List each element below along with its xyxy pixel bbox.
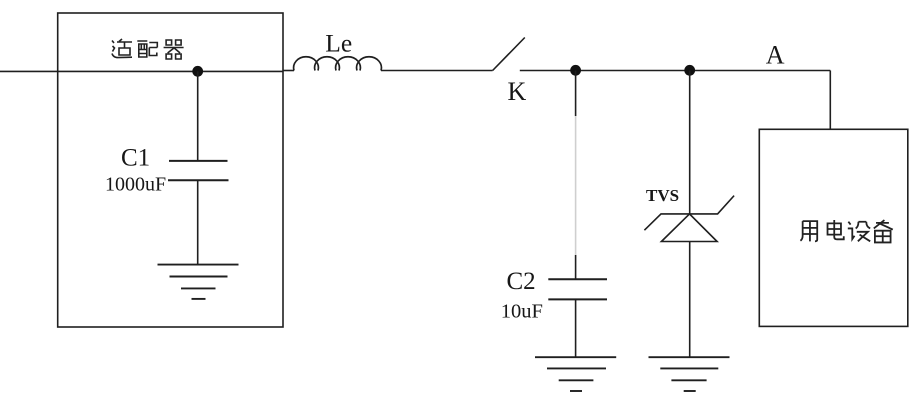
wire: inductor lead bbox=[283, 70, 294, 72]
ground (C2) bbox=[535, 357, 616, 391]
ground (TVS) bbox=[649, 357, 730, 391]
inductor Le bbox=[294, 57, 382, 71]
wire: switch to corner above load box bbox=[520, 70, 831, 72]
svg-text:C2: C2 bbox=[507, 268, 536, 295]
wire: into C2 top plate bbox=[575, 255, 577, 279]
TVS diode D1: cathode bar with bent ends bbox=[644, 196, 734, 231]
TVS diode D1: triangle bbox=[661, 214, 717, 242]
adapter box bbox=[58, 13, 283, 327]
switch K blade bbox=[493, 38, 525, 71]
wire: node down to C1 top plate bbox=[197, 71, 199, 161]
svg-text:Le: Le bbox=[325, 29, 352, 58]
wire: node B2 down to TVS bbox=[689, 71, 691, 214]
wire: input lead from left edge through adapter to box right edge bbox=[0, 70, 283, 72]
load box (用电设备) bbox=[759, 129, 908, 326]
label 用电设备 (load) hand-drawn glyphs bbox=[800, 220, 892, 242]
node B2: junction dot at TVS branch bbox=[684, 65, 695, 76]
label 适配器 (adapter) hand-drawn glyphs bbox=[112, 39, 184, 59]
capacitor C2 bbox=[548, 279, 607, 299]
wire: faint middle segment of C2 branch bbox=[575, 116, 577, 255]
glyph 器 bbox=[164, 40, 184, 59]
svg-text:TVS: TVS bbox=[646, 186, 679, 205]
glyph 适 bbox=[112, 39, 132, 58]
wire: inductor to switch bbox=[381, 70, 493, 72]
glyph 配 bbox=[137, 41, 157, 57]
svg-text:A: A bbox=[766, 41, 785, 70]
glyph 电 bbox=[828, 220, 844, 239]
wire: drop into load box bbox=[829, 71, 831, 130]
svg-text:C1: C1 bbox=[121, 145, 150, 172]
glyph 用 bbox=[800, 221, 817, 241]
glyph 设 bbox=[848, 222, 870, 242]
capacitor C1 bbox=[168, 161, 229, 180]
svg-text:K: K bbox=[508, 77, 527, 106]
ground (C1) bbox=[158, 265, 239, 299]
glyph 备 bbox=[874, 220, 893, 242]
wire: TVS to ground bbox=[689, 242, 691, 358]
wire: node B1 down (dark upper part) bbox=[575, 71, 577, 117]
node A1: junction dot inside adapter bbox=[192, 66, 203, 77]
node B1: junction dot at C2 branch bbox=[570, 65, 581, 76]
wire: C2 to ground bbox=[575, 299, 577, 357]
svg-text:1000uF: 1000uF bbox=[105, 174, 166, 196]
svg-text:10uF: 10uF bbox=[501, 300, 543, 322]
wire: C1 to ground bbox=[197, 180, 199, 264]
